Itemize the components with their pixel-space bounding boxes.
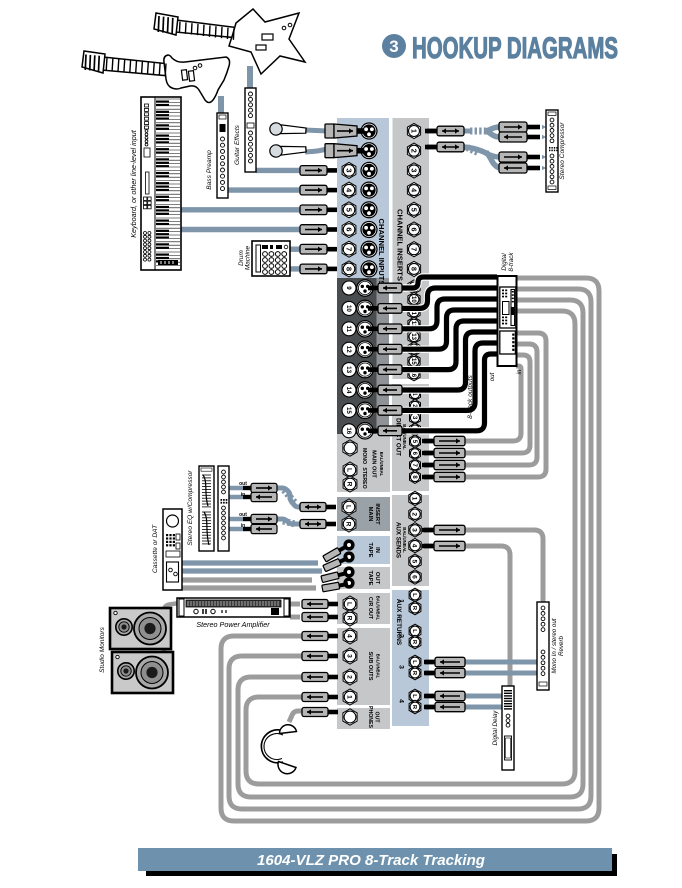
svg-text:4: 4 [409, 188, 418, 192]
svg-text:L: L [346, 468, 353, 472]
svg-text:Digital: Digital [501, 253, 508, 271]
svg-text:1604-VLZ PRO 8-Track Tracking: 1604-VLZ PRO 8-Track Tracking [257, 852, 485, 869]
svg-text:R: R [345, 522, 352, 527]
svg-text:Stereo Power Amplifier: Stereo Power Amplifier [196, 620, 270, 629]
svg-text:16: 16 [345, 427, 352, 434]
svg-text:8-track outputs: 8-track outputs [467, 374, 474, 418]
svg-text:Stereo EQ w/Compressor: Stereo EQ w/Compressor [187, 470, 194, 546]
svg-text:TAPE: TAPE [367, 570, 373, 585]
svg-text:out: out [239, 512, 247, 518]
svg-text:3: 3 [389, 37, 398, 56]
svg-text:9: 9 [345, 286, 352, 290]
svg-text:10: 10 [410, 296, 416, 303]
svg-text:in: in [241, 523, 245, 529]
svg-text:2: 2 [409, 149, 418, 153]
svg-text:8-track: 8-track [508, 252, 515, 272]
svg-text:11: 11 [345, 326, 352, 333]
svg-text:2: 2 [411, 512, 418, 516]
svg-text:SUB OUTS: SUB OUTS [367, 652, 373, 681]
svg-text:in: in [516, 369, 523, 374]
svg-text:OUT: OUT [374, 572, 380, 585]
svg-text:DIRECT OUT: DIRECT OUT [394, 418, 401, 456]
svg-text:CHANNEL INSERTS: CHANNEL INSERTS [395, 209, 404, 281]
svg-text:TAPE: TAPE [367, 542, 373, 557]
svg-text:C/R OUT: C/R OUT [367, 597, 373, 620]
svg-text:3: 3 [409, 168, 418, 172]
svg-text:STEREO: STEREO [361, 467, 367, 488]
svg-text:R: R [346, 616, 353, 621]
svg-text:14: 14 [345, 387, 352, 394]
svg-text:5: 5 [409, 208, 418, 212]
svg-text:MAIN: MAIN [367, 507, 373, 522]
svg-text:Keyboard, or other line-level: Keyboard, or other line-level input [129, 129, 138, 237]
svg-text:PHONES: PHONES [367, 706, 373, 728]
svg-text:MAIN OUT: MAIN OUT [371, 450, 377, 478]
svg-text:5: 5 [344, 208, 353, 212]
svg-text:out: out [489, 372, 496, 381]
svg-text:CHANNEL INPUTS: CHANNEL INPUTS [377, 219, 386, 286]
svg-text:MONO: MONO [361, 448, 367, 464]
svg-text:4: 4 [398, 699, 405, 703]
svg-text:8: 8 [344, 267, 353, 271]
svg-text:13: 13 [345, 366, 352, 373]
svg-text:R: R [346, 482, 353, 487]
svg-text:Reverb: Reverb [558, 635, 565, 656]
svg-text:BAL/UNBAL: BAL/UNBAL [379, 452, 384, 477]
svg-text:15: 15 [410, 358, 416, 365]
svg-text:15: 15 [345, 407, 352, 414]
svg-text:7: 7 [409, 247, 418, 251]
svg-text:8: 8 [409, 267, 418, 271]
svg-text:Digital Delay: Digital Delay [492, 710, 499, 746]
svg-text:AUX RETURNS: AUX RETURNS [395, 599, 402, 646]
svg-text:L: L [411, 593, 417, 597]
svg-text:Mono In / stereo out: Mono In / stereo out [551, 618, 558, 673]
svg-text:HOOKUP DIAGRAMS: HOOKUP DIAGRAMS [412, 32, 618, 65]
svg-text:3: 3 [398, 665, 405, 669]
svg-text:6: 6 [344, 227, 353, 231]
svg-text:Studio Monitors: Studio Monitors [99, 626, 106, 673]
svg-text:2: 2 [346, 675, 353, 679]
svg-text:3: 3 [344, 168, 353, 172]
svg-text:L: L [411, 629, 417, 633]
svg-text:12: 12 [345, 346, 352, 353]
svg-text:L: L [345, 505, 352, 509]
svg-text:AUX SENDS: AUX SENDS [394, 522, 401, 558]
svg-text:Guitar Effects: Guitar Effects [234, 124, 241, 165]
svg-text:Machine: Machine [245, 245, 252, 270]
svg-text:L: L [411, 660, 417, 664]
svg-text:Bass Preamp: Bass Preamp [206, 150, 213, 190]
svg-text:in: in [241, 492, 245, 498]
svg-text:3: 3 [411, 528, 418, 532]
svg-text:4: 4 [346, 634, 353, 638]
svg-text:1: 1 [411, 497, 418, 501]
svg-text:4: 4 [411, 544, 418, 548]
svg-text:1: 1 [346, 695, 353, 699]
svg-text:BAL/UNBAL: BAL/UNBAL [402, 527, 407, 553]
svg-text:BAL/UNBAL: BAL/UNBAL [376, 596, 381, 621]
svg-text:BAL/UNBAL: BAL/UNBAL [376, 654, 381, 679]
svg-text:out: out [239, 481, 247, 487]
svg-text:6: 6 [409, 228, 418, 232]
svg-text:Cassette or DAT: Cassette or DAT [152, 524, 159, 573]
svg-text:10: 10 [345, 305, 352, 312]
svg-text:L: L [411, 694, 417, 698]
svg-text:OUT: OUT [374, 712, 380, 724]
svg-text:1: 1 [409, 129, 418, 133]
svg-text:L: L [346, 602, 353, 606]
svg-text:3: 3 [346, 654, 353, 658]
svg-text:Stereo Compressor: Stereo Compressor [559, 122, 566, 180]
svg-text:13: 13 [410, 333, 416, 340]
svg-text:INSERT: INSERT [374, 503, 380, 525]
svg-text:5: 5 [411, 559, 418, 563]
svg-text:6: 6 [411, 575, 418, 579]
svg-text:IN: IN [374, 547, 380, 553]
svg-text:7: 7 [344, 247, 353, 251]
